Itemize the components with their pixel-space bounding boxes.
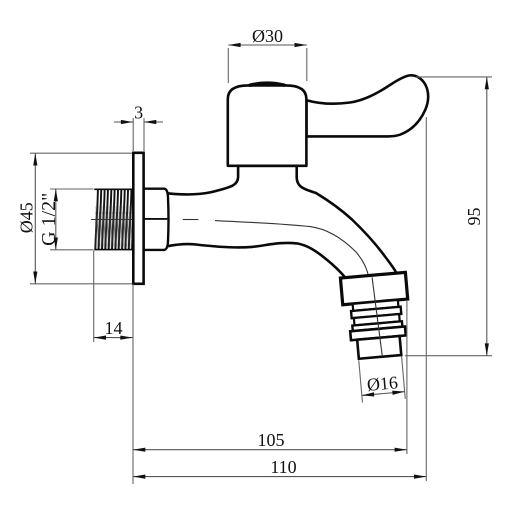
ridge 1 bbox=[351, 307, 401, 319]
hex nut bbox=[144, 189, 169, 250]
dimension G 1/2 extension lines bbox=[50, 188, 94, 190]
dimension 95 extension lines bbox=[416, 76, 492, 78]
svg-text:95: 95 bbox=[464, 208, 484, 226]
dimension Ø16 extension lines bbox=[359, 360, 363, 402]
outlet cap block bbox=[340, 272, 407, 304]
svg-text:G 1/2": G 1/2" bbox=[38, 193, 60, 246]
dimension Ø30 line bbox=[228, 44, 306, 46]
cap lens on head top bbox=[250, 83, 284, 85]
outlet axis thin line bbox=[372, 277, 382, 356]
svg-text:110: 110 bbox=[270, 457, 296, 477]
head (bonnet) bbox=[228, 85, 307, 165]
wire: tap body tube and spout outline bbox=[164, 166, 397, 279]
neck 2 bbox=[354, 314, 400, 325]
threaded tail bbox=[94, 189, 134, 249]
nut mid facet line bbox=[144, 218, 169, 220]
extension line from outlet to 105 bbox=[406, 300, 408, 454]
neck 1 bbox=[353, 300, 399, 311]
svg-text:Ø30: Ø30 bbox=[252, 26, 283, 46]
extension line from handle tip to 110 bbox=[425, 117, 427, 481]
wall flange bbox=[133, 153, 143, 284]
outlet assembly (hose connector), tilted bbox=[340, 272, 416, 403]
handle lever bbox=[307, 75, 429, 136]
dimension G 1/2 line bbox=[55, 189, 57, 250]
dimension 3 arrow lines (outside) bbox=[114, 121, 133, 123]
dimension Ø16 line bbox=[362, 392, 405, 396]
dimension 14 extension lines bbox=[93, 251, 95, 343]
nozzle bbox=[357, 336, 401, 359]
dimension 14 line bbox=[94, 337, 133, 339]
dimension Ø30 extension lines bbox=[227, 48, 229, 83]
ridge 2 bbox=[352, 321, 402, 331]
svg-text:Ø16: Ø16 bbox=[366, 372, 399, 395]
collar bbox=[350, 326, 406, 340]
dimension 95 line bbox=[486, 77, 488, 356]
svg-text:3: 3 bbox=[134, 103, 143, 123]
svg-text:105: 105 bbox=[258, 430, 285, 450]
spout inner thin line bbox=[215, 221, 375, 357]
dimension Ø45 extension lines bbox=[30, 152, 132, 154]
svg-text:14: 14 bbox=[105, 318, 123, 338]
dimension Ø45 line bbox=[34, 153, 36, 284]
svg-text:Ø45: Ø45 bbox=[17, 202, 37, 233]
dimension 3 extension lines bbox=[132, 118, 134, 151]
dimension 110 line bbox=[133, 476, 426, 478]
centerline bbox=[91, 219, 168, 221]
dimension 105 line bbox=[133, 449, 407, 451]
